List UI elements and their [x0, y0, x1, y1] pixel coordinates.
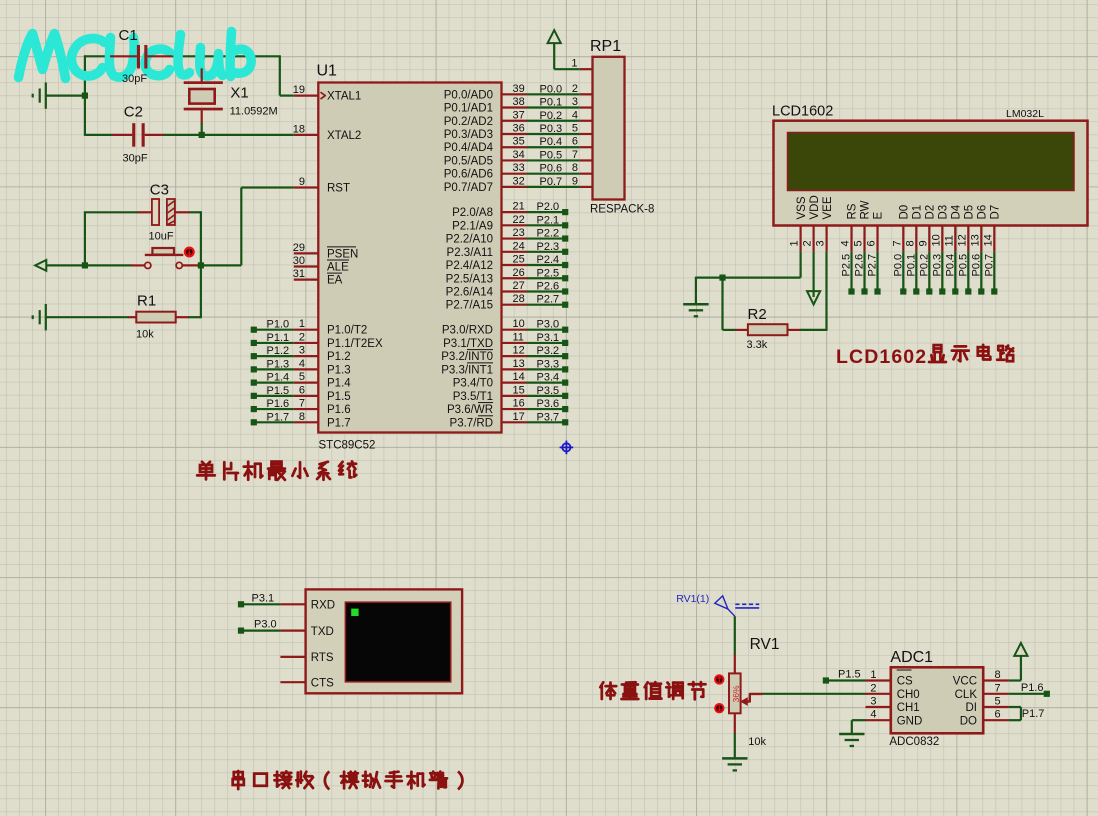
- svg-text:18: 18: [293, 123, 305, 135]
- svg-text:P0.2: P0.2: [918, 254, 930, 277]
- svg-text:15: 15: [513, 384, 525, 396]
- adc pin 2 CH0: [866, 693, 891, 695]
- pin 2 P1.1/T2EX: [294, 342, 319, 344]
- svg-text:P1.3: P1.3: [327, 364, 351, 376]
- adc pin 3 CH1: [866, 706, 891, 708]
- svg-text:11.0592M: 11.0592M: [230, 106, 278, 118]
- svg-text:P0.4/AD4: P0.4/AD4: [444, 142, 494, 154]
- svg-text:D6: D6: [977, 205, 989, 220]
- pin 11 P3.1: [502, 342, 527, 344]
- node crystal bottom: [199, 132, 205, 138]
- pot knob up: [714, 674, 724, 684]
- serial pin TXD: [280, 629, 305, 631]
- svg-text:P3.6: P3.6: [537, 398, 560, 410]
- pin XTAL1 clock chevron: [321, 92, 326, 99]
- svg-text:P0.7: P0.7: [540, 176, 563, 188]
- serial pin CTS: [280, 681, 305, 683]
- svg-text:P2.7: P2.7: [537, 294, 560, 306]
- wire lcd net P0.5: [967, 252, 969, 292]
- svg-text:RP1: RP1: [590, 38, 621, 55]
- svg-text:P3.0: P3.0: [254, 619, 277, 631]
- svg-text:D1: D1: [912, 205, 924, 220]
- svg-text:9: 9: [299, 176, 305, 188]
- wire net P2.5: [527, 277, 566, 279]
- svg-text:11: 11: [513, 331, 524, 343]
- svg-text:8: 8: [995, 669, 1001, 681]
- wire net P1.6: [254, 408, 294, 410]
- node VSS junction: [719, 275, 725, 281]
- crystal X1: [201, 68, 203, 81]
- svg-text:30: 30: [293, 255, 305, 267]
- svg-text:P3.2: P3.2: [537, 345, 560, 357]
- svg-text:P2.0/A8: P2.0/A8: [452, 207, 493, 219]
- serial screen: [345, 602, 450, 682]
- pin 24 P2.3: [502, 251, 527, 253]
- wire net P1.3: [254, 368, 294, 370]
- svg-text:P0.1/AD1: P0.1/AD1: [444, 103, 493, 115]
- svg-text:P1.2: P1.2: [327, 351, 351, 363]
- wire net P3.0: [241, 629, 280, 631]
- ground (ADC): [839, 733, 864, 736]
- svg-text:P1.1/T2EX: P1.1/T2EX: [327, 338, 383, 350]
- svg-text:P3.6/WR: P3.6/WR: [447, 404, 493, 416]
- wire R2 to VEE: [800, 329, 827, 331]
- wire C2 right to XTAL2: [163, 134, 294, 136]
- svg-text:ADC0832: ADC0832: [889, 736, 939, 748]
- svg-text:CH1: CH1: [897, 702, 920, 714]
- wire net P2.6: [527, 290, 566, 292]
- svg-text:LCD1602: LCD1602: [772, 104, 833, 120]
- wire lcd net P2.5: [850, 252, 852, 292]
- serial pin RXD: [280, 603, 305, 605]
- pin 14 P3.4: [502, 382, 527, 384]
- ground (LCD VSS): [683, 303, 708, 306]
- svg-text:P0.5/AD5: P0.5/AD5: [444, 155, 493, 167]
- wire net P1.5: [254, 395, 294, 397]
- node reset right: [198, 262, 204, 268]
- svg-text:GND: GND: [897, 715, 923, 727]
- button interactive marker: [184, 247, 195, 258]
- wire VCC to power: [1009, 679, 1021, 681]
- serial pin RTS: [280, 656, 305, 658]
- svg-text:P3.2/INT0: P3.2/INT0: [441, 351, 493, 363]
- svg-text:P3.1/TXD: P3.1/TXD: [443, 338, 493, 350]
- svg-text:10k: 10k: [136, 329, 154, 341]
- pin 31 EA: [294, 279, 319, 281]
- svg-text:8: 8: [299, 411, 305, 423]
- svg-text:P2.5: P2.5: [537, 267, 560, 279]
- serial screen cursor: [351, 609, 358, 616]
- svg-text:P2.6: P2.6: [854, 254, 866, 277]
- svg-text:7: 7: [572, 149, 578, 161]
- svg-text:P2.6/A14: P2.6/A14: [446, 286, 494, 298]
- svg-text:P3.5: P3.5: [537, 385, 560, 397]
- wire net P2.2: [527, 237, 566, 239]
- svg-text:3: 3: [299, 345, 305, 357]
- svg-text:R2: R2: [748, 306, 767, 323]
- svg-text:CLK: CLK: [955, 689, 978, 701]
- pin 8 P1.7: [294, 421, 319, 423]
- svg-text:13: 13: [513, 358, 525, 370]
- power arrow down (VDD): [807, 291, 820, 304]
- svg-text:RXD: RXD: [311, 600, 335, 612]
- wire crystal top stub: [201, 56, 203, 69]
- wire C1 right to crystal top node: [172, 55, 281, 57]
- svg-text:VDD: VDD: [809, 195, 821, 219]
- svg-text:5: 5: [572, 122, 578, 134]
- push button (reset): [145, 262, 151, 268]
- pin 27 P2.6: [502, 290, 527, 292]
- svg-text:36%: 36%: [731, 685, 741, 702]
- svg-text:P3.1: P3.1: [537, 332, 560, 344]
- svg-text:P3.0: P3.0: [537, 319, 560, 331]
- svg-text:4: 4: [840, 240, 852, 246]
- pot bottom wire: [734, 713, 736, 733]
- pin 6 P1.5: [294, 395, 319, 397]
- pin 3 P1.2: [294, 355, 319, 357]
- svg-text:3: 3: [870, 696, 876, 708]
- wire GND to ground: [852, 719, 866, 721]
- svg-text:TXD: TXD: [311, 626, 334, 638]
- wire arrow to button: [46, 264, 131, 266]
- svg-text:P0.1: P0.1: [905, 254, 917, 277]
- wire net P1.1: [254, 342, 294, 344]
- adc pin 7 CLK: [983, 693, 1008, 695]
- pin 7 P1.6: [294, 408, 319, 410]
- pin 35 P0.4: [502, 146, 527, 148]
- pin 33 P0.6: [502, 173, 527, 175]
- svg-text:6: 6: [866, 240, 878, 246]
- svg-text:30pF: 30pF: [122, 73, 147, 85]
- svg-text:P0.4: P0.4: [944, 254, 956, 277]
- pin 12 P3.2: [502, 355, 527, 357]
- svg-text:P1.7: P1.7: [267, 411, 290, 423]
- pin 7 RP1: [580, 159, 593, 161]
- power arrow (ADC VCC): [1014, 643, 1027, 656]
- svg-text:5: 5: [995, 696, 1001, 708]
- wire right rail down: [200, 211, 202, 318]
- svg-text:P2.2: P2.2: [537, 228, 560, 240]
- wire net P1.0: [254, 329, 294, 331]
- svg-text:23: 23: [513, 227, 525, 239]
- svg-text:25: 25: [513, 254, 525, 266]
- wire lcd net P0.1: [915, 252, 917, 292]
- svg-text:P2.7: P2.7: [867, 254, 879, 277]
- svg-text:P2.5/A13: P2.5/A13: [446, 273, 493, 285]
- serial port box: [306, 589, 463, 693]
- svg-text:10: 10: [513, 318, 525, 330]
- svg-text:C3: C3: [150, 182, 169, 199]
- svg-text:R1: R1: [137, 293, 156, 310]
- svg-text:P1.3: P1.3: [267, 358, 290, 370]
- wire net P1.2: [254, 355, 294, 357]
- wire P0.0 to RP1: [527, 93, 580, 95]
- svg-text:17: 17: [513, 411, 525, 423]
- svg-text:RW: RW: [860, 200, 872, 219]
- svg-text:37: 37: [513, 109, 525, 121]
- wire C3 left rail down: [84, 211, 86, 266]
- wire DI-DO loop net P1.7: [1009, 706, 1021, 708]
- wire net P3.0: [527, 329, 566, 331]
- svg-text:CS: CS: [897, 676, 913, 688]
- svg-text:CTS: CTS: [311, 677, 334, 689]
- svg-text:10k: 10k: [748, 736, 766, 748]
- svg-text:7: 7: [299, 398, 305, 410]
- svg-text:32: 32: [513, 175, 525, 187]
- mcu U1 body: [318, 83, 501, 433]
- wire P0.3 to RP1: [527, 133, 580, 135]
- svg-text:P1.0: P1.0: [267, 319, 290, 331]
- svg-text:D2: D2: [925, 205, 937, 220]
- svg-text:P0.3: P0.3: [540, 123, 563, 135]
- svg-text:31: 31: [293, 268, 305, 280]
- svg-text:2: 2: [870, 682, 876, 694]
- svg-text:P2.0: P2.0: [537, 201, 560, 213]
- svg-text:LCD1602: LCD1602: [836, 346, 927, 368]
- svg-text:D4: D4: [951, 204, 963, 219]
- svg-text:EA: EA: [327, 275, 343, 287]
- wire RP1 pin1 to power: [554, 68, 580, 70]
- adc pin 8 VCC: [983, 679, 1008, 681]
- svg-text:1: 1: [299, 318, 305, 330]
- svg-text:30pF: 30pF: [123, 153, 148, 165]
- svg-text:P0.7/AD7: P0.7/AD7: [444, 182, 493, 194]
- svg-text:P2.2/A10: P2.2/A10: [446, 234, 493, 246]
- svg-text:VEE: VEE: [822, 196, 834, 219]
- svg-text:14: 14: [513, 371, 525, 383]
- wire net P3.5: [527, 395, 566, 397]
- svg-text:26: 26: [513, 267, 525, 279]
- svg-text:8: 8: [904, 240, 916, 246]
- svg-text:P1.6: P1.6: [327, 404, 351, 416]
- pin 1 P1.0/T2: [294, 329, 319, 331]
- ground (top left): [45, 82, 47, 108]
- pin 3 RP1: [580, 106, 593, 108]
- lcd screen: [788, 133, 1075, 191]
- svg-text:P1.7: P1.7: [1022, 708, 1045, 720]
- pot wiper: [746, 694, 762, 702]
- svg-text:6: 6: [299, 384, 305, 396]
- wire to RST: [201, 264, 241, 266]
- svg-text:2: 2: [572, 83, 578, 95]
- svg-text:P0.0: P0.0: [892, 254, 904, 277]
- adc pin 5 DI: [983, 706, 1008, 708]
- svg-text:LM032L: LM032L: [1006, 108, 1044, 120]
- svg-text:P3.7: P3.7: [537, 411, 560, 423]
- svg-text:1: 1: [870, 669, 876, 681]
- wire net P1.4: [254, 382, 294, 384]
- wire ground to R1: [46, 316, 129, 318]
- wire to XTAL1 pin: [280, 94, 294, 96]
- svg-text:P0.6/AD6: P0.6/AD6: [444, 169, 493, 181]
- svg-text:P0.0/AD0: P0.0/AD0: [444, 89, 493, 101]
- svg-text:12: 12: [513, 345, 525, 357]
- pin 32 P0.7: [502, 186, 527, 188]
- ground (RV1): [722, 757, 747, 760]
- svg-text:29: 29: [293, 242, 305, 254]
- wire XTAL1 down: [279, 56, 281, 95]
- svg-text:P0.6: P0.6: [540, 163, 563, 175]
- caption: serial receive (CJK): [233, 771, 244, 789]
- wire net P3.3: [527, 368, 566, 370]
- wire P0.1 to RP1: [527, 106, 580, 108]
- svg-text:P0.4: P0.4: [540, 136, 563, 148]
- svg-text:RV1(1): RV1(1): [676, 593, 709, 605]
- wire net P2.7: [527, 304, 566, 306]
- svg-text:CH0: CH0: [897, 689, 920, 701]
- pin 13 P3.3: [502, 368, 527, 370]
- svg-text:P2.6: P2.6: [537, 280, 560, 292]
- node crystal top: [199, 53, 205, 59]
- wire net P3.1: [241, 603, 280, 605]
- wire R1 right: [188, 316, 201, 318]
- wire junction to R2: [721, 278, 723, 330]
- svg-text:13: 13: [969, 234, 981, 246]
- pin 17 P3.7: [502, 421, 527, 423]
- svg-text:XTAL1: XTAL1: [327, 91, 361, 103]
- svg-text:P3.4/T0: P3.4/T0: [453, 378, 493, 390]
- wire net P2.0: [527, 211, 566, 213]
- svg-text:RST: RST: [327, 183, 350, 195]
- pin 28 P2.7: [502, 304, 527, 306]
- caption: weight value adjust (CJK): [600, 682, 616, 699]
- pin 18 XTAL2: [294, 134, 319, 136]
- wire net P2.1: [527, 224, 566, 226]
- svg-text:3: 3: [815, 240, 827, 246]
- wire lcd net P0.6: [980, 252, 982, 292]
- pin 4 RP1: [580, 120, 593, 122]
- svg-text:P1.1: P1.1: [267, 332, 290, 344]
- wire P0.7 to RP1: [527, 186, 580, 188]
- wire lcd net P0.7: [993, 252, 995, 292]
- svg-text:PSEN: PSEN: [327, 248, 358, 260]
- pin 1 RP1: [580, 68, 593, 70]
- svg-text:VCC: VCC: [953, 676, 977, 688]
- svg-text:39: 39: [513, 83, 525, 95]
- ground arrow (left): [35, 260, 46, 271]
- svg-text:16: 16: [513, 398, 525, 410]
- pot knob down: [714, 703, 724, 713]
- wire C3 right: [190, 211, 201, 213]
- wire lcd net P0.2: [928, 252, 930, 292]
- svg-text:P0.0: P0.0: [540, 83, 563, 95]
- wire probe to RV1: [734, 616, 736, 655]
- svg-text:D7: D7: [990, 205, 1002, 220]
- svg-text:P1.4: P1.4: [267, 372, 290, 384]
- svg-text:5: 5: [853, 240, 865, 246]
- svg-text:U1: U1: [317, 63, 338, 80]
- wire ground to node A: [46, 94, 85, 96]
- svg-text:28: 28: [513, 293, 525, 305]
- wire VDD down: [812, 252, 814, 297]
- pin 9 RP1: [580, 186, 593, 188]
- wire net P3.1: [527, 342, 566, 344]
- svg-text:6: 6: [995, 709, 1001, 721]
- pin 37 P0.2: [502, 120, 527, 122]
- adc pin 6 DO: [983, 719, 1008, 721]
- pin 6 RP1: [580, 146, 593, 148]
- pin 5 RP1: [580, 133, 593, 135]
- wire net P2.3: [527, 251, 566, 253]
- pin 38 P0.1: [502, 106, 527, 108]
- node A junction: [82, 93, 88, 99]
- wire net P1.5: [826, 679, 866, 681]
- svg-text:3: 3: [572, 96, 578, 108]
- svg-text:7: 7: [891, 240, 903, 246]
- svg-text:P0.3: P0.3: [931, 254, 943, 277]
- adc CS overline: [897, 669, 912, 671]
- svg-text:38: 38: [513, 96, 525, 108]
- pin 23 P2.2: [502, 237, 527, 239]
- pin 25 P2.4: [502, 264, 527, 266]
- svg-text:C1: C1: [119, 27, 138, 44]
- wire lcd net P0.4: [954, 252, 956, 292]
- wire P0.2 to RP1: [527, 120, 580, 122]
- pin 5 P1.4: [294, 382, 319, 384]
- svg-text:1: 1: [789, 240, 801, 246]
- wire C2 left: [85, 134, 113, 136]
- wire VEE down: [825, 252, 827, 331]
- svg-text:P3.7/RD: P3.7/RD: [450, 417, 493, 429]
- svg-text:1: 1: [571, 58, 577, 70]
- svg-text:P3.0/RXD: P3.0/RXD: [442, 325, 493, 337]
- svg-text:P0.1: P0.1: [540, 97, 563, 109]
- pin 26 P2.5: [502, 277, 527, 279]
- wire crystal bottom stub: [201, 123, 203, 136]
- svg-text:4: 4: [299, 358, 305, 370]
- pin 8 RP1: [580, 173, 593, 175]
- svg-text:5: 5: [299, 371, 305, 383]
- wire net P3.6: [527, 408, 566, 410]
- svg-text:4: 4: [572, 109, 578, 121]
- svg-text:27: 27: [513, 280, 525, 292]
- svg-text:12: 12: [956, 234, 968, 246]
- pin 36 P0.3: [502, 133, 527, 135]
- svg-text:ALE: ALE: [327, 262, 349, 274]
- wire net P3.2: [527, 355, 566, 357]
- svg-text:9: 9: [917, 240, 929, 246]
- svg-text:6: 6: [572, 136, 578, 148]
- svg-text:C2: C2: [124, 104, 143, 121]
- wire net P2.4: [527, 264, 566, 266]
- svg-text:P3.4: P3.4: [537, 372, 560, 384]
- svg-text:P0.6: P0.6: [970, 254, 982, 277]
- svg-text:3.3k: 3.3k: [747, 339, 768, 351]
- svg-text:P2.3/A11: P2.3/A11: [447, 247, 493, 259]
- svg-text:P1.5: P1.5: [267, 385, 290, 397]
- svg-text:P2.4/A12: P2.4/A12: [446, 260, 493, 272]
- svg-text:14: 14: [982, 234, 994, 246]
- svg-text:36: 36: [513, 122, 525, 134]
- wire lcd net P0.3: [941, 252, 943, 292]
- svg-text:19: 19: [293, 84, 305, 96]
- pin 21 P2.0: [502, 211, 527, 213]
- svg-text:VSS: VSS: [796, 196, 808, 219]
- svg-text:P0.3/AD3: P0.3/AD3: [444, 129, 493, 141]
- svg-text:21: 21: [513, 201, 525, 213]
- svg-text:RTS: RTS: [311, 652, 334, 664]
- wire P0.6 to RP1: [527, 173, 580, 175]
- svg-text:P1.6: P1.6: [267, 398, 290, 410]
- wire net P1.7: [254, 421, 294, 423]
- svg-text:4: 4: [870, 709, 876, 721]
- svg-text:9: 9: [572, 175, 578, 187]
- svg-text:P1.2: P1.2: [267, 345, 290, 357]
- wire net P3.7: [527, 421, 566, 423]
- pin 30 ALE: [294, 265, 319, 267]
- wire C1 left: [85, 55, 111, 57]
- wire VSS down: [799, 252, 801, 278]
